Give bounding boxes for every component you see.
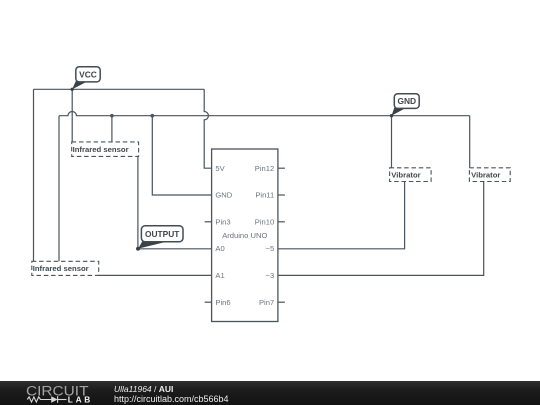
pin stub Pin7: [278, 301, 285, 303]
wire infrared sensor 1 output to A0: [138, 156, 212, 248]
svg-text:Pin10: Pin10: [255, 217, 274, 226]
wire infrared sensor 2 output to A1: [99, 274, 212, 276]
net flag OUTPUT: [136, 226, 183, 251]
svg-text:Arduino UNO: Arduino UNO: [222, 231, 267, 240]
svg-text:A1: A1: [215, 271, 224, 280]
svg-text:GND: GND: [215, 191, 232, 200]
svg-text:Pin7: Pin7: [259, 298, 274, 307]
svg-text:Infrared sensor: Infrared sensor: [33, 264, 89, 273]
net flag GND: [390, 94, 419, 118]
svg-text:Pin3: Pin3: [215, 217, 230, 226]
svg-text:OUTPUT: OUTPUT: [145, 229, 180, 239]
svg-text:Pin11: Pin11: [255, 191, 274, 200]
pin stub Pin12: [278, 167, 285, 169]
svg-text:A0: A0: [215, 244, 224, 253]
footer bar: [0, 381, 540, 405]
junction dot GND/IR1: [110, 114, 114, 118]
svg-text:~3: ~3: [266, 271, 275, 280]
pin stub Pin3: [205, 221, 212, 223]
arduino U1 Arduino UNO body: [212, 149, 278, 322]
wire vibrator 2 to pin ~3: [278, 182, 484, 276]
wire VCC to infrared sensor 1: [71, 89, 73, 142]
footer credit text: [114, 385, 229, 404]
junction dot GND/arduino: [151, 114, 155, 118]
vibrator 1 box: [390, 168, 432, 182]
CircuitLab logo: [25, 381, 97, 405]
pin stub Pin6: [205, 301, 212, 303]
svg-text:Pin12: Pin12: [255, 164, 274, 173]
wire GND to infrared sensor 1: [111, 116, 113, 142]
svg-text:Infrared sensor: Infrared sensor: [73, 145, 129, 154]
infrared sensor 2 box: [32, 261, 99, 275]
wire GND to vibrator 1: [391, 116, 393, 168]
infrared sensor 1 box: [72, 142, 139, 157]
svg-text:Pin6: Pin6: [215, 298, 230, 307]
wire VCC left vertical to infrared sensor 2: [33, 89, 35, 261]
wire GND left vertical to infrared sensor 2: [58, 116, 60, 262]
svg-text:LAB: LAB: [68, 395, 91, 405]
wire GND to vibrator 2: [469, 116, 471, 168]
svg-text:GND: GND: [397, 96, 416, 106]
vibrator 2 box: [469, 168, 510, 182]
net flag VCC: [71, 67, 101, 91]
wire GND horizontal with hop: [59, 111, 470, 115]
svg-text:VCC: VCC: [79, 69, 97, 79]
svg-text:~5: ~5: [266, 244, 275, 253]
wire GND to arduino GND pin: [152, 116, 211, 195]
svg-text:Vibrator: Vibrator: [471, 171, 500, 180]
svg-text:Vibrator: Vibrator: [391, 171, 420, 180]
wire vibrator 1 to pin ~5: [278, 182, 405, 249]
pin stub Pin10: [278, 221, 285, 223]
wire VCC down to 5V pin with hop over GND wire: [204, 89, 211, 168]
junction dot OUTPUT: [136, 247, 140, 251]
svg-text:5V: 5V: [215, 164, 225, 173]
pin stub Pin11: [278, 194, 285, 196]
wire VCC top horizontal: [34, 88, 205, 90]
